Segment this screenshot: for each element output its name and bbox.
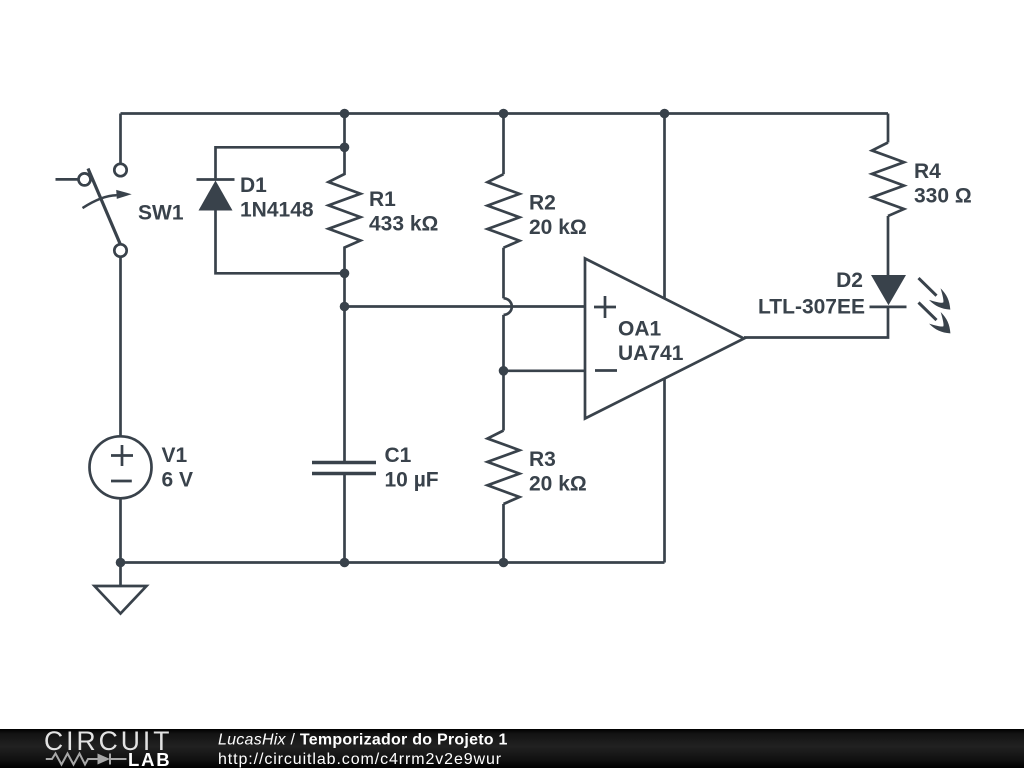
svg-text:1N4148: 1N4148 <box>240 199 314 222</box>
svg-text:R4: R4 <box>914 160 941 183</box>
svg-text:http://circuitlab.com/c4rrm2v2: http://circuitlab.com/c4rrm2v2e9wur <box>218 751 502 768</box>
svg-text:433 kΩ: 433 kΩ <box>369 213 438 236</box>
LED D2 emission arrow 2 <box>919 303 957 340</box>
resistor R3 <box>488 431 520 505</box>
wire hop to node B <box>502 315 505 371</box>
junction D1 top / R1 <box>340 143 350 153</box>
svg-text:UA741: UA741 <box>618 342 684 365</box>
wire SW1 to V1 <box>119 257 122 437</box>
wire op-amp - input <box>504 369 586 372</box>
svg-text:D2: D2 <box>836 269 863 292</box>
LED D2 <box>870 273 907 307</box>
svg-text:D1: D1 <box>240 174 267 197</box>
svg-text:R3: R3 <box>529 448 556 471</box>
resistor R4 <box>872 143 904 217</box>
wire node A to C1 <box>343 307 346 462</box>
wire V1 to ground node <box>119 498 122 562</box>
wire hop over + input <box>504 298 512 315</box>
junction top rail / R1 branch <box>340 109 350 119</box>
wire left branch top rail to SW1 <box>119 114 122 164</box>
voltage source V1 <box>90 436 152 498</box>
diode D1 <box>197 180 235 211</box>
wire node B to R3 <box>502 371 505 431</box>
capacitor C1 <box>312 463 376 474</box>
junction node A <box>340 302 350 312</box>
diode D1 bottom wire <box>216 211 345 274</box>
svg-text:20 kΩ: 20 kΩ <box>529 473 587 496</box>
op-amp OA1 <box>585 259 744 419</box>
junction top rail / op-amp supply <box>660 109 670 119</box>
svg-text:20 kΩ: 20 kΩ <box>529 216 587 239</box>
svg-text:LucasHix / Temporizador do Pro: LucasHix / Temporizador do Projeto 1 <box>218 732 508 749</box>
diode D1 top wire <box>216 147 345 178</box>
junction D1 bottom / R1 <box>340 269 350 279</box>
wire bottom rail <box>121 561 665 564</box>
junction bottom rail / C1 <box>340 558 350 568</box>
svg-text:C1: C1 <box>385 444 412 467</box>
svg-text:LAB: LAB <box>128 749 171 768</box>
svg-text:OA1: OA1 <box>618 318 662 341</box>
wire op-amp output <box>744 307 888 338</box>
wire R1 to node A <box>343 273 346 306</box>
wire R2 to hop <box>502 248 505 299</box>
svg-text:R2: R2 <box>529 192 556 215</box>
junction top rail / R2 branch <box>499 109 509 119</box>
wire top rail to R2 <box>502 114 505 175</box>
wire top rail <box>121 112 889 115</box>
wire op-amp supply vertical (behind op-amp) <box>663 114 666 563</box>
svg-text:SW1: SW1 <box>138 202 184 225</box>
wire op-amp + input <box>345 305 586 308</box>
wire top rail to R1 <box>343 114 346 148</box>
svg-text:R1: R1 <box>369 188 396 211</box>
svg-text:6 V: 6 V <box>162 469 194 492</box>
wire R3 to bottom rail <box>502 504 505 563</box>
svg-text:LTL-307EE: LTL-307EE <box>758 296 865 319</box>
LED D2 emission arrow 1 <box>919 278 957 315</box>
svg-text:330 Ω: 330 Ω <box>914 185 972 208</box>
logo squiggle <box>46 754 127 765</box>
junction node B <box>499 366 509 376</box>
footer bar <box>0 729 1024 768</box>
svg-text:10 µF: 10 µF <box>385 469 439 492</box>
switch SW1 <box>56 164 132 257</box>
svg-text:V1: V1 <box>162 444 188 467</box>
wire C1 to bottom rail <box>343 475 346 563</box>
wire R4 to D2 <box>887 216 890 273</box>
resistor R2 <box>488 174 520 248</box>
junction bottom rail / ground <box>116 558 126 568</box>
junction bottom rail / R3 <box>499 558 509 568</box>
wire R4 branch: rail to R4 <box>887 114 890 143</box>
ground <box>95 563 147 614</box>
resistor R1 <box>329 147 361 273</box>
